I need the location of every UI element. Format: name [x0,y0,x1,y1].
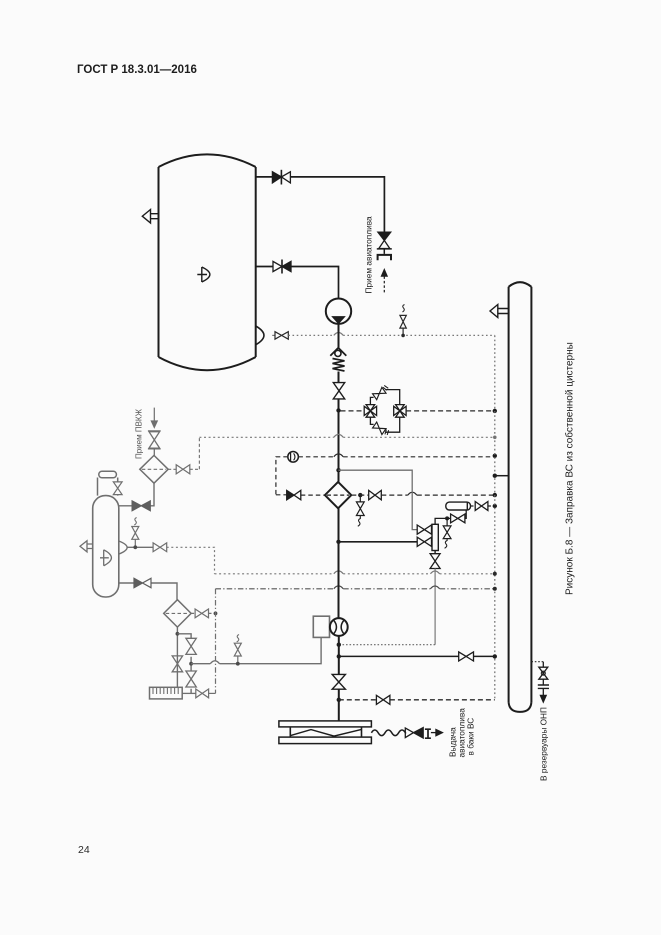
loading coupling bracket [378,255,391,260]
bypass outlet dashed pipe [406,410,495,412]
tank T3 PVKZh tank [93,496,119,597]
drain nozzle bump on tank T1 [256,326,264,345]
pipe column top to sampler [435,510,466,524]
dotted drain line from tank T1 [288,334,495,336]
valve V22 [191,609,215,618]
node [493,504,497,508]
valve B3 [172,656,182,672]
tank T3 neck [98,471,118,495]
valve V12 [417,537,431,546]
valve V26 [376,695,390,704]
relief valve SP3 [443,518,451,548]
valve B2 [186,671,196,687]
valve V1 half-filled [272,170,290,185]
level indicator symbol in tank T3 [100,550,111,566]
valve V20 [153,543,167,552]
dashed header drop pipe [215,589,217,694]
grey pipe main to column with hop [339,470,418,529]
filter F3 drain filter [164,600,191,627]
svg-text:24: 24 [78,844,90,856]
pipe from tank T1 top outlet [256,177,385,232]
bypass cross valve V5 [364,405,376,418]
tank T2 tanker cistern [509,282,532,712]
node [493,474,497,478]
level indicator symbol in tank T1 [197,267,210,282]
pipe from tank T1 second outlet to pump [256,267,339,299]
receiving valve Прием авиатоплива [377,232,392,254]
relief valve SP2 [356,495,364,526]
dotted pipe to header [167,547,215,574]
label Выдача авиатоплива в баки ВС [448,708,476,758]
valve V14 [471,502,495,511]
pipe tank T2 to ONP [531,661,543,663]
pressure gauge PI1 [288,452,299,463]
bypass slanted valve V8 [373,422,390,437]
bypass inlet dashed pipe [341,410,365,412]
valve V27 [539,667,548,685]
valve V16 with flanges [148,431,161,456]
pipe from tank T3 bottom [119,583,177,600]
dashed pipe to manifold with hop [381,494,495,496]
valve V18 on neck [113,482,122,495]
relief valve SP1 [400,305,406,338]
valve V17 [168,465,199,474]
vent arrow on tank T1 [142,210,158,224]
gauge dashed sensing lines [276,457,495,495]
manifold dashed header pipe [494,335,496,699]
valve V13 [451,514,465,523]
hose coil [371,730,406,736]
valve V23 [196,689,216,698]
nozzle connection bar and arrow [425,729,443,738]
vent arrow on tank T3 [80,541,93,552]
node below meter [337,643,341,647]
main riser pipe below pump [338,324,340,482]
node [189,662,193,666]
valve B1 [186,638,196,654]
node grey [493,436,497,440]
junction node main line [336,468,340,472]
sampler cylinder [446,502,471,510]
dashed recirculation line with hops [216,588,495,590]
dashed pipe valve to filter [301,494,325,496]
valve V21 half-filled [134,578,151,587]
main line through meter down [338,508,340,721]
valve V4 on main line [333,383,344,399]
nozzle valve half-filled [405,728,423,738]
pipe from bump with node [127,546,153,548]
filter F2 PVKZh filter [140,455,168,483]
pipe comb to header [182,692,196,694]
node [493,493,497,497]
dashed pipe to manifold bottom [339,699,495,701]
valve V24 [459,652,474,661]
drain valve V3 at tank T1 bump [272,332,288,340]
svg-text:в баки ВС: в баки ВС [466,718,476,756]
valve V25 on main line [332,674,345,689]
flow arrow down [540,688,546,702]
node on manifold [493,409,497,413]
node right of filter F1 [358,493,362,497]
bypass lower rail pipe [370,417,399,432]
filter F1 fuel filter [325,482,351,508]
node [445,516,449,520]
svg-text:Прием авиатоплива: Прием авиатоплива [364,216,374,294]
valve V19 filled [132,501,150,511]
counter box [313,616,329,637]
drain bump on tank T3 [119,541,127,554]
relief valve SP4 [132,518,139,548]
bypass cross valve V6 [394,405,406,418]
valve V2 half-filled [273,260,291,274]
node [337,698,341,702]
pipe hop over main line [334,434,343,437]
relief valve SP5 [234,635,241,666]
svg-text:В резервуары ОНП: В резервуары ОНП [539,707,549,781]
drain manifold junction [176,627,178,687]
PVKZh inlet arrow [151,408,157,428]
bypass slanted valve V7 [372,384,389,399]
fuelling platform bottom bar [279,737,372,744]
node [493,654,497,658]
valve V15 column bottom [430,551,440,569]
fuelling platform top bar [279,721,372,727]
platform posts [290,727,361,737]
node [493,454,497,458]
valve V10 [369,490,382,499]
micro-filter column [432,524,438,550]
svg-text:Рисунок Б.8 — Заправка ВС из с: Рисунок Б.8 — Заправка ВС из собственной… [564,342,576,595]
pipe hop over main line [334,333,343,336]
check valve CV1 with spring [330,348,346,371]
vent arrow on tank T2 [490,305,509,318]
pipe filter F2 to tank T3 [119,483,154,506]
coupling flanges [538,685,549,688]
bypass upper rail pipe [370,390,399,405]
svg-text:ГОСТ Р 18.3.01—2016: ГОСТ Р 18.3.01—2016 [77,64,197,76]
solid pipe to manifold [339,655,495,657]
node [337,654,341,658]
black pipe to column [339,541,418,543]
pump P1 [326,299,351,324]
svg-text:Прием ПВКЖ: Прием ПВКЖ [135,408,144,459]
valve V9 half-filled [287,490,301,499]
grey return pipe column to meter [434,569,436,645]
junction node main-bypass [336,408,340,412]
dotted PVKZh additive line [198,437,200,469]
platform zigzag scissor [291,730,362,737]
grey pipe drain to counter with hop [191,637,321,663]
node [214,612,218,616]
flow arrow Прием авиатоплива [381,269,387,294]
pipe hop over main line [334,454,343,457]
solid stub manifold to tank T2 [495,475,509,477]
dashed pipe into filter F1 [276,494,287,496]
tank T1 fuel storage [159,154,256,370]
flow meter FM1 [330,618,348,636]
dotted transfer line with hops [215,573,495,575]
measuring tank comb [150,687,183,699]
valve V11 [417,525,431,534]
junction node main line lower [336,540,340,544]
